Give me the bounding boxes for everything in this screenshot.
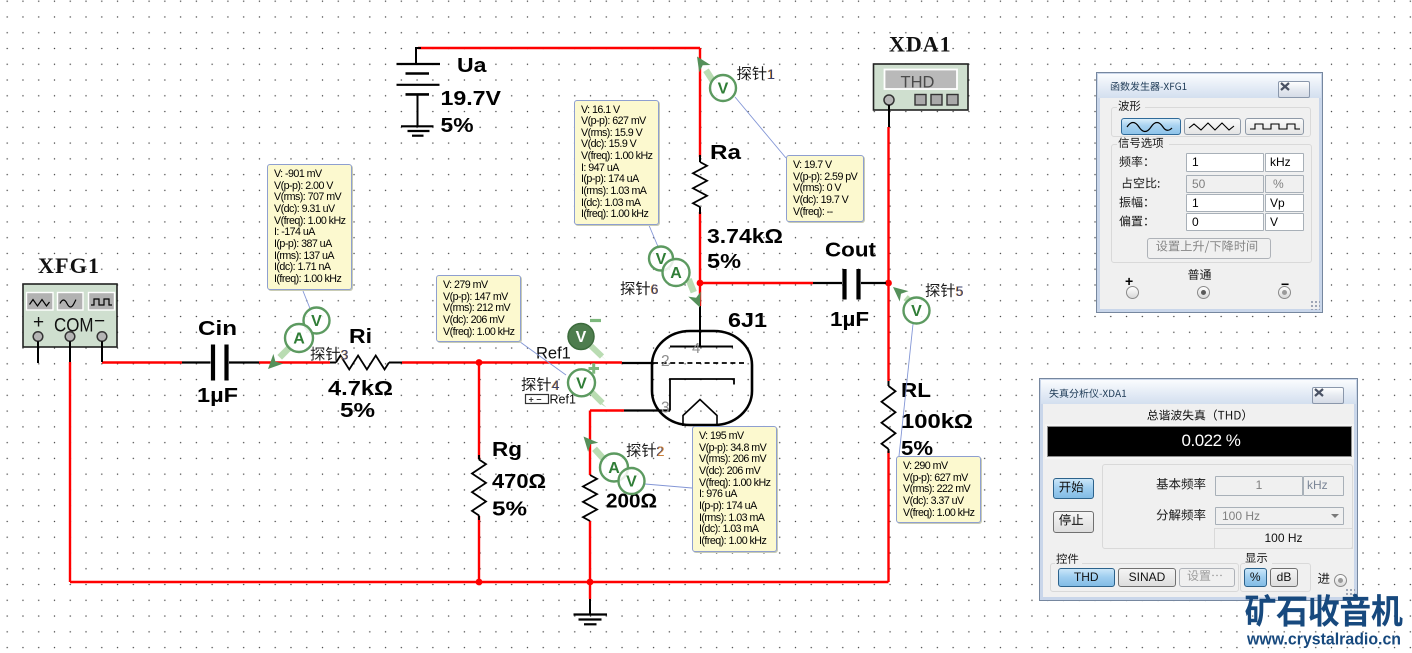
svg-text:www.crystalradio.cn: www.crystalradio.cn: [1246, 630, 1401, 649]
